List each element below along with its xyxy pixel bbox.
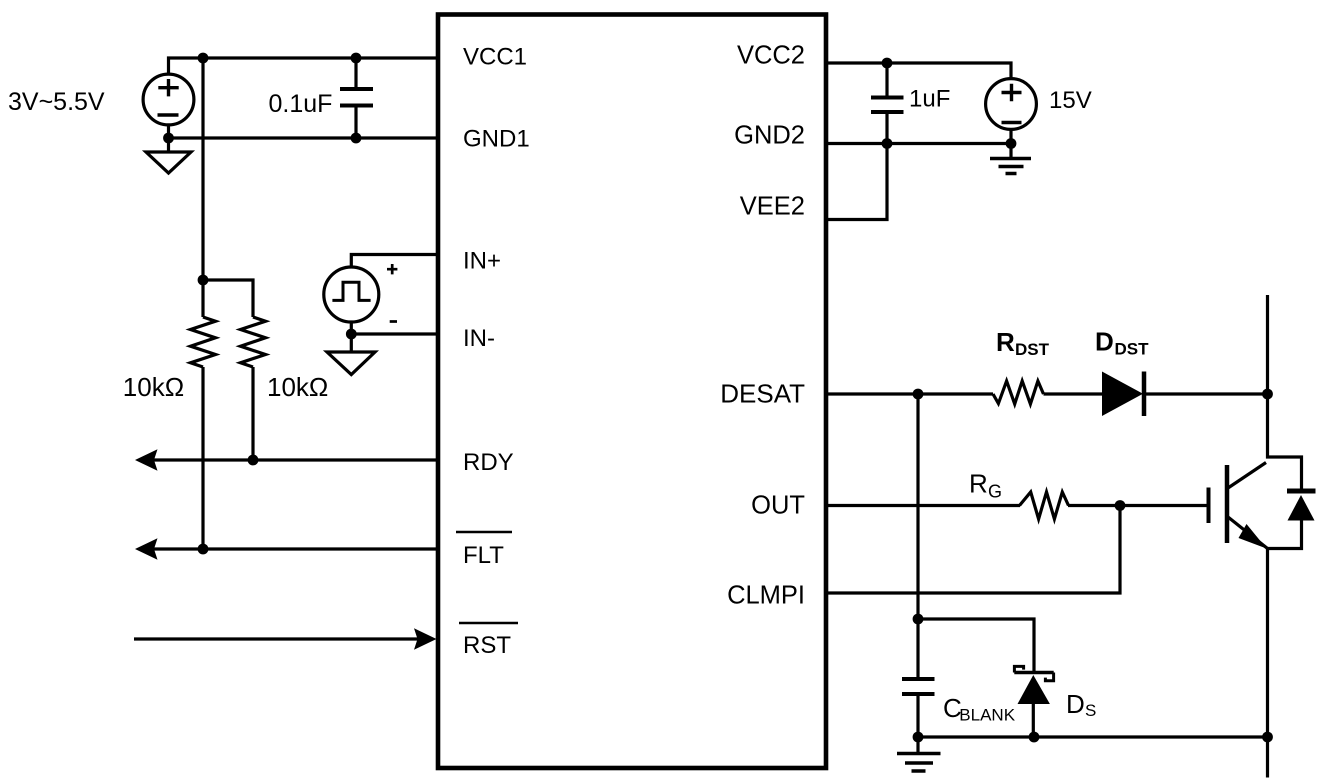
svg-text:GND1: GND1 — [463, 126, 530, 153]
svg-text:DS: DS — [1066, 689, 1096, 720]
svg-text:VEE2: VEE2 — [740, 193, 805, 221]
svg-text:VCC1: VCC1 — [463, 44, 527, 71]
svg-text:VCC2: VCC2 — [737, 42, 805, 70]
svg-text:FLT: FLT — [463, 542, 504, 569]
svg-text:DDST: DDST — [1095, 327, 1149, 359]
svg-text:IN+: IN+ — [463, 248, 501, 275]
svg-text:RDY: RDY — [463, 449, 514, 476]
svg-text:10kΩ: 10kΩ — [123, 372, 184, 402]
svg-text:IN-: IN- — [463, 325, 495, 352]
svg-text:0.1uF: 0.1uF — [269, 90, 333, 118]
svg-text:10kΩ: 10kΩ — [267, 372, 328, 402]
svg-text:3V~5.5V: 3V~5.5V — [8, 88, 105, 116]
svg-text:OUT: OUT — [751, 492, 805, 520]
svg-text:DESAT: DESAT — [720, 379, 805, 409]
svg-text:CBLANK: CBLANK — [943, 693, 1016, 724]
svg-text:15V: 15V — [1049, 87, 1092, 114]
svg-text:RDST: RDST — [996, 327, 1050, 359]
svg-text:CLMPI: CLMPI — [727, 582, 805, 610]
svg-text:GND2: GND2 — [734, 122, 805, 150]
svg-text:RST: RST — [463, 632, 511, 659]
svg-text:RG: RG — [969, 469, 1002, 502]
svg-text:1uF: 1uF — [909, 86, 950, 113]
